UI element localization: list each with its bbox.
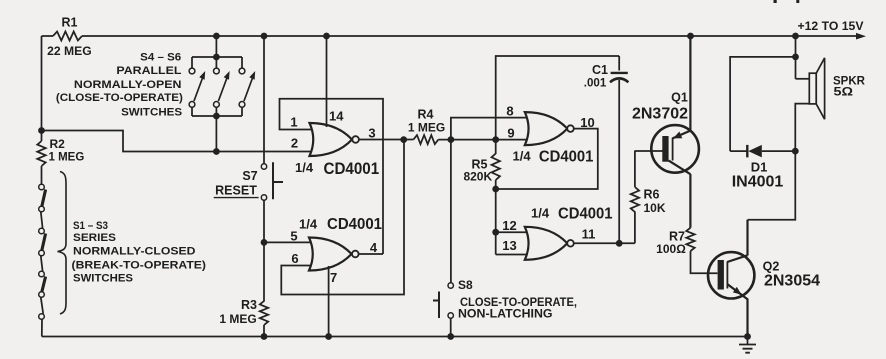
node top rail at pin14 stem xyxy=(323,33,330,40)
svg-text:CD4001: CD4001 xyxy=(324,159,380,178)
resistor R5 820K xyxy=(492,140,500,189)
svg-text:S8: S8 xyxy=(458,278,473,292)
wire speaker top terminal xyxy=(796,78,810,80)
wire node R2 to gate1 pin2 (jog) xyxy=(42,131,316,152)
wire top rail to speaker feed xyxy=(795,36,797,79)
wire gate2 pin5 xyxy=(264,241,313,243)
switch contact circle 7 of S1-S3 chain xyxy=(39,314,45,320)
switch S3 blade xyxy=(42,277,46,293)
svg-text:820K: 820K xyxy=(463,169,492,183)
transistor Q2 emitter arrow (NPN outward) xyxy=(733,287,742,295)
svg-text:1: 1 xyxy=(290,115,297,130)
wire top +V rail main segment xyxy=(82,35,857,37)
wire gate4 pin12 xyxy=(496,231,531,233)
switch contact circle 2 of S1-S3 chain xyxy=(39,206,45,212)
switch S6 arrow actuator xyxy=(244,78,253,101)
svg-text:NORMALLY-CLOSED: NORMALLY-CLOSED xyxy=(73,246,196,258)
gate2 output bubble pin4 xyxy=(352,251,359,258)
svg-text:NORMALLY-OPEN: NORMALLY-OPEN xyxy=(74,79,181,91)
node jog wire at S4-S6 stem xyxy=(213,148,220,155)
svg-text:1/4: 1/4 xyxy=(299,217,318,232)
svg-text:100Ω: 100Ω xyxy=(656,242,686,256)
svg-text:9: 9 xyxy=(507,126,514,141)
wire Q1 collector lead xyxy=(669,161,691,228)
transistor Q1 emitter arrow (PNP into base) xyxy=(673,132,682,139)
svg-text:CD4001: CD4001 xyxy=(558,206,613,223)
wire Q2 emitter lead xyxy=(727,284,748,337)
speaker SPKR 5 ohm xyxy=(816,58,824,119)
node D1 cathode-side junction xyxy=(792,148,799,155)
node D1 top branch xyxy=(792,54,799,61)
svg-text:Q1: Q1 xyxy=(671,91,688,105)
svg-text:4: 4 xyxy=(370,240,378,255)
node top rail at speaker feed xyxy=(792,33,799,40)
svg-text:R6: R6 xyxy=(644,188,660,202)
svg-text:CD4001: CD4001 xyxy=(327,216,382,233)
svg-text:R1: R1 xyxy=(62,15,78,29)
svg-text:1/4: 1/4 xyxy=(295,160,314,175)
svg-text:7: 7 xyxy=(330,270,337,285)
switch S6 bottom stem xyxy=(241,107,243,116)
brace for S1-S3 group xyxy=(58,172,67,315)
op-amp U1 gate1 1/4 CD4001 body xyxy=(310,123,353,156)
wire pin7 stem to bottom rail xyxy=(328,266,330,337)
svg-text:RESET: RESET xyxy=(215,184,257,198)
node R1-R2 junction xyxy=(38,127,45,134)
svg-text:R3: R3 xyxy=(241,298,257,312)
wire stem top rail to S4-S6 top bus xyxy=(215,36,217,57)
svg-text:3: 3 xyxy=(368,126,375,141)
svg-text:12: 12 xyxy=(502,218,516,233)
svg-text:2: 2 xyxy=(291,136,298,151)
node top rail at S4-S6 stem xyxy=(213,33,220,40)
wire S8 to bottom rail xyxy=(450,318,452,336)
resistor R6 10K xyxy=(631,151,639,244)
switch S4 arrow actuator xyxy=(194,78,203,101)
wire D1 top branch xyxy=(730,57,795,151)
wire top +V rail left segment xyxy=(42,35,54,37)
svg-text:1 MEG: 1 MEG xyxy=(49,152,85,164)
node R4 right / pin8 / S8 xyxy=(448,136,455,143)
op-amp U1 gate3 1/4 CD4001 body xyxy=(525,112,568,145)
switch S1 blade xyxy=(42,190,46,207)
wire gate3 output loop to R5 and pins 12/13 xyxy=(496,129,598,255)
svg-text:R4: R4 xyxy=(418,107,434,121)
wire gate3 pin9 xyxy=(496,139,531,141)
op-amp U1 gate2 1/4 CD4001 body xyxy=(309,238,352,271)
switch S7 bottom contact xyxy=(261,195,266,200)
switch S6 bottom contact xyxy=(239,102,245,108)
svg-text:6: 6 xyxy=(291,251,298,266)
ground symbol xyxy=(747,337,749,345)
switch S6 top contact xyxy=(239,68,245,74)
wire Q2 collector lead xyxy=(727,220,747,262)
transistor Q2 base bar inner line xyxy=(726,262,728,289)
power arrow +12 TO 15V xyxy=(856,33,866,40)
switch S5 top contact xyxy=(214,68,220,74)
node S8 bottom rail xyxy=(447,333,454,340)
transistor Q2 2N3054 circle xyxy=(708,252,754,298)
node top rail at S7 branch xyxy=(261,33,268,40)
node R3 bottom rail xyxy=(261,333,268,340)
svg-text:1/4: 1/4 xyxy=(513,149,532,164)
node gate1 output pin3 xyxy=(400,136,407,143)
node S4-S6 top bus xyxy=(213,54,220,61)
wire S3 to corner link xyxy=(41,297,43,314)
svg-text:(BREAK-TO-OPERATE): (BREAK-TO-OPERATE) xyxy=(72,259,207,271)
resistor R2 1 MEG xyxy=(37,141,45,166)
wire bottom ground rail xyxy=(42,336,748,338)
svg-text:10K: 10K xyxy=(644,201,666,215)
wire pin14 stem from top rail xyxy=(326,36,328,127)
node pin7 bottom rail xyxy=(325,333,332,340)
capacitor C1 .001 lead and plates xyxy=(618,56,620,243)
svg-text:NON-LATCHING: NON-LATCHING xyxy=(458,309,553,321)
node pin9 / R5 / C1 loop xyxy=(492,136,499,143)
wire speaker bottom terminal to Q2 collector xyxy=(748,104,810,220)
wire Q1 emitter lead xyxy=(673,36,691,138)
switch S6 top stem xyxy=(241,57,243,68)
svg-text:2N3054: 2N3054 xyxy=(764,273,820,290)
cropped glyph top edge 2 xyxy=(796,0,799,3)
svg-text:11: 11 xyxy=(582,227,596,242)
wire S4-S6 top bus xyxy=(192,56,242,58)
svg-text:1 MEG: 1 MEG xyxy=(408,121,445,135)
svg-text:S7: S7 xyxy=(242,169,257,183)
switch S8 top contact xyxy=(448,283,453,288)
transistor Q1 2N3702 circle xyxy=(651,125,699,173)
gate1 output bubble pin3 xyxy=(352,136,359,143)
op-amp U1 gate4 1/4 CD4001 body xyxy=(525,227,568,260)
node R5 bottom loop xyxy=(492,186,499,193)
switch contact circle 6 of S1-S3 chain xyxy=(39,292,45,298)
switch S8 actuator bar xyxy=(433,292,439,319)
switch S8 bottom contact xyxy=(448,313,453,318)
svg-text:CD4001: CD4001 xyxy=(539,149,594,166)
wire C1 top loop to pin9 node xyxy=(496,56,620,140)
svg-text:CLOSE-TO-OPERATE,: CLOSE-TO-OPERATE, xyxy=(460,297,577,309)
svg-text:2N3702: 2N3702 xyxy=(632,105,688,122)
svg-text:22 MEG: 22 MEG xyxy=(47,44,91,58)
resistor R1 22 MEG xyxy=(53,32,82,41)
wire gate4 pin13 xyxy=(496,254,531,256)
wire S1-S3 chain to bottom rail xyxy=(41,319,43,336)
switch S4 top stem xyxy=(191,57,193,68)
svg-text:S1 – S3: S1 – S3 xyxy=(73,220,108,232)
wire R4 node to S8 xyxy=(450,140,452,283)
node top rail at Q1 emitter xyxy=(687,33,694,40)
resistor R4 1 MEG xyxy=(413,135,495,144)
transistor Q2 base bar xyxy=(718,260,724,290)
svg-text:(CLOSE-TO-OPERATE): (CLOSE-TO-OPERATE) xyxy=(56,92,183,104)
svg-text:S4 – S6: S4 – S6 xyxy=(140,52,181,64)
switch S5 arrow actuator xyxy=(218,78,227,101)
wire gate2 pin6 feedback loop xyxy=(281,140,404,295)
wire gate3 pin8 jog xyxy=(451,118,529,140)
underline RESET xyxy=(214,197,259,199)
wire gate2 output pin4 to loop xyxy=(359,253,383,255)
wire gate1 pin1 feedback loop xyxy=(280,99,384,254)
switch S7 top contact xyxy=(261,164,266,169)
switch S4 top contact xyxy=(189,68,195,74)
svg-text:PARALLEL: PARALLEL xyxy=(116,65,181,77)
gate3 output bubble pin10 xyxy=(567,125,574,132)
node S4-S6 bottom bus xyxy=(213,113,220,120)
svg-text:8: 8 xyxy=(506,103,513,118)
wire S7 to gate2 pin5 node xyxy=(263,200,265,242)
wire top rail to S7 xyxy=(263,36,265,164)
switch S5 bottom contact xyxy=(214,102,220,108)
svg-text:10: 10 xyxy=(580,115,594,130)
cropped glyph top edge 1 xyxy=(774,0,777,3)
svg-text:13: 13 xyxy=(502,238,516,253)
gate4 output bubble pin11 xyxy=(567,240,574,247)
svg-text:14: 14 xyxy=(329,109,344,124)
switch contact circle 3 of S1-S3 chain xyxy=(39,228,45,234)
node Q2 emitter bottom rail xyxy=(744,333,751,340)
svg-text:1/4: 1/4 xyxy=(531,206,550,221)
resistor R7 100ohm xyxy=(686,228,717,274)
svg-text:Q2: Q2 xyxy=(763,260,780,274)
wire S1-S2 link xyxy=(41,212,43,228)
switch contact circle 5 of S1-S3 chain xyxy=(39,271,45,277)
svg-text:1 MEG: 1 MEG xyxy=(219,312,256,326)
transistor Q1 base bar xyxy=(662,136,668,162)
resistor R3 1 MEG xyxy=(260,242,268,336)
switch S4 bottom contact xyxy=(189,102,195,108)
switch contact circle 1 of S1-S3 chain xyxy=(39,184,45,190)
wire S4-S6 bottom bus xyxy=(192,115,242,117)
wire left rail upper xyxy=(41,36,43,141)
switch S4 bottom stem xyxy=(191,107,193,116)
svg-text:5: 5 xyxy=(290,229,297,244)
switch S5 top stem xyxy=(215,57,217,68)
svg-text:+12 TO 15V: +12 TO 15V xyxy=(798,19,864,33)
svg-text:R2: R2 xyxy=(50,137,66,151)
switch contact circle 4 of S1-S3 chain xyxy=(39,250,45,256)
diode D1 1N4001 xyxy=(730,150,795,152)
switch S7 actuator bar xyxy=(273,162,283,199)
wire gate4 output pin11 to R6 xyxy=(573,242,635,244)
wire R2 to S1 xyxy=(41,166,43,184)
svg-text:D1: D1 xyxy=(751,160,768,175)
switch S2 blade xyxy=(42,234,46,251)
wire gate1 output pin3 xyxy=(359,139,414,141)
node gate2 pin5 / S7 / R3 xyxy=(261,239,268,246)
svg-text:5Ω: 5Ω xyxy=(834,87,854,99)
svg-text:SWITCHES: SWITCHES xyxy=(121,107,182,119)
node pin12 branch xyxy=(492,229,499,236)
switch S5 bottom stem xyxy=(215,107,217,116)
wire stem S4-S6 bottom bus down xyxy=(215,116,217,152)
svg-text:SERIES: SERIES xyxy=(73,232,116,244)
svg-text:SWITCHES: SWITCHES xyxy=(73,272,133,284)
svg-text:.001: .001 xyxy=(584,76,607,90)
wire S2-S3 link xyxy=(41,256,43,271)
wire R6 to Q1 base xyxy=(635,150,663,152)
svg-text:IN4001: IN4001 xyxy=(732,174,784,191)
transistor Q1 base bar inner line xyxy=(672,138,674,161)
node C1 at pin11 xyxy=(616,240,623,247)
